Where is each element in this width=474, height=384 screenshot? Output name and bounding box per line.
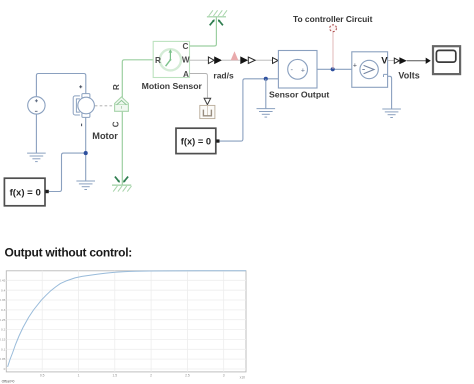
wire: A port to PS terminator <box>190 74 208 98</box>
svg-text:0.45: 0.45 <box>0 278 6 282</box>
PS terminator T1 <box>200 105 215 118</box>
mechanical rotational reference (bottom) <box>112 177 132 192</box>
svg-text:2: 2 <box>150 373 152 377</box>
svg-text:R: R <box>155 56 161 65</box>
unit marker (pink triangle) <box>231 51 239 60</box>
svg-text:0.5: 0.5 <box>40 373 45 377</box>
signal arrow from V <box>399 57 406 64</box>
arrowhead at scope input <box>426 58 431 64</box>
wire: red to controller circuit <box>332 32 334 69</box>
wire: sensor output to voltage sensor <box>317 68 352 70</box>
svg-text:A: A <box>183 70 189 79</box>
svg-text:0.35: 0.35 <box>0 298 6 302</box>
inertia J1 <box>115 97 129 111</box>
svg-text:0: 0 <box>4 367 6 371</box>
ground: voltage sensor <box>382 109 401 118</box>
motion sensor U1 <box>153 41 190 78</box>
node: motor/ground junction <box>84 151 88 155</box>
svg-text:0.3: 0.3 <box>1 308 6 312</box>
svg-text:0.2: 0.2 <box>1 328 6 332</box>
voltage sensor U3 <box>352 52 388 88</box>
wire: solver f(x)=0 #1 to motor junction <box>49 153 86 191</box>
svg-text:0.15: 0.15 <box>0 338 6 342</box>
PS terminator input triangle <box>204 98 211 105</box>
svg-text:Sensor Output: Sensor Output <box>269 89 329 99</box>
solver config f(x)=0 #1 <box>4 178 48 206</box>
svg-text:0.25: 0.25 <box>0 318 6 322</box>
mechanical rotational reference (top) <box>207 10 227 25</box>
wire: green rotational line R <box>122 60 153 98</box>
motor M1 <box>73 85 94 126</box>
svg-text:Output without control:: Output without control: <box>5 245 133 259</box>
voltage source V1 <box>28 97 45 114</box>
svg-text:R: R <box>112 84 121 90</box>
svg-text:Volts: Volts <box>398 70 419 80</box>
svg-text:3: 3 <box>223 373 225 377</box>
sensor output source U2 <box>278 51 317 89</box>
svg-text:C: C <box>183 42 189 51</box>
svg-text:W: W <box>182 56 190 65</box>
svg-text:Motor: Motor <box>92 131 118 141</box>
svg-text:To controller Circuit: To controller Circuit <box>293 14 373 24</box>
svg-text:V: V <box>381 56 388 67</box>
PS-Simulink converter (left pair) <box>208 56 222 64</box>
node: controller tap junction <box>331 67 335 71</box>
chart: output plot <box>0 271 246 384</box>
PS-Simulink converter (right pair) <box>240 56 255 64</box>
svg-text:1: 1 <box>78 373 80 377</box>
svg-text:x10: x10 <box>240 376 245 380</box>
wire: green rotational line C to reference <box>121 111 123 185</box>
wire: V to scope <box>407 60 426 62</box>
ground: sensor output <box>257 109 276 118</box>
ground: below source <box>27 153 46 162</box>
dashed connection: motor R to inertia <box>95 105 115 107</box>
svg-text:0.1: 0.1 <box>1 347 6 351</box>
wire: W port to converters <box>190 59 273 61</box>
node: sensor output minus junction <box>264 77 268 81</box>
wire: motor bottom to junction and ground <box>85 117 87 181</box>
svg-text:0.4: 0.4 <box>1 288 6 292</box>
output port triangle of V <box>394 58 399 63</box>
svg-text:f(x) = 0: f(x) = 0 <box>181 136 211 146</box>
wire: voltage sensor minus to ground <box>388 76 392 109</box>
svg-text:Offset=0: Offset=0 <box>2 380 15 384</box>
port marker: To controller Circuit <box>330 25 337 32</box>
svg-text:C: C <box>112 121 121 127</box>
solver config f(x)=0 #2 <box>176 128 220 153</box>
wire: junction to ground <box>265 79 267 109</box>
input port triangle of Sensor Output <box>273 58 279 64</box>
svg-text:Motion Sensor: Motion Sensor <box>142 81 203 91</box>
svg-text:rad/s: rad/s <box>213 70 234 80</box>
svg-text:0.05: 0.05 <box>0 357 6 361</box>
wire: source bottom to ground <box>35 114 37 153</box>
ground: below motor <box>76 181 95 190</box>
wire: V output port line <box>388 60 395 62</box>
svg-text:f(x) = 0: f(x) = 0 <box>10 187 41 198</box>
svg-text:2.5: 2.5 <box>185 373 190 377</box>
svg-text:+: + <box>353 63 357 70</box>
wire: solver #2 to sensor-output minus junction <box>220 79 279 141</box>
wire: source top to motor plus <box>36 74 85 97</box>
svg-text:1.5: 1.5 <box>113 373 118 377</box>
wire: C port to top reference <box>190 17 217 46</box>
svg-text:+: + <box>301 67 305 74</box>
scope SC1 <box>433 46 460 74</box>
